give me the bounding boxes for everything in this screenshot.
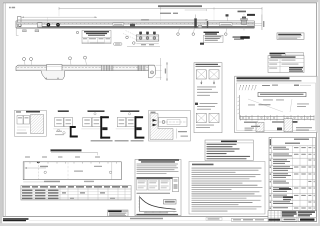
section detail group D <box>116 110 145 138</box>
balloon item 7 <box>225 28 228 35</box>
extension line right <box>261 10 263 30</box>
panel footer note <box>251 126 260 127</box>
rail clip block <box>198 25 202 28</box>
type list table <box>205 140 253 161</box>
rail view A: roller 2 <box>56 23 60 27</box>
sheet scale label M 1:2 <box>9 7 15 9</box>
rail view B: slider block <box>47 65 63 71</box>
rail view B: right dimension ticks <box>156 58 162 80</box>
section detail group B <box>53 110 78 137</box>
print strip <box>232 218 269 221</box>
rail view A: end dim ticks <box>247 15 264 31</box>
section detail box A <box>15 110 47 136</box>
rail view A: part number plate mid <box>113 23 124 26</box>
rail view B: hatched segment 1 <box>102 65 114 70</box>
instruction box <box>200 35 223 45</box>
rail view A: dark latch mid <box>130 24 135 27</box>
rail view A: front mounting bracket <box>18 17 22 27</box>
template dimension table <box>21 186 131 201</box>
rail view A: roller 1 <box>47 23 51 27</box>
left end extension line <box>16 28 18 36</box>
overall length dimension label <box>158 5 202 7</box>
balloon item 1b <box>30 58 33 65</box>
footer print info text <box>29 218 316 221</box>
vertical dimension line 19 <box>165 62 168 81</box>
balloon item 2 <box>126 36 129 39</box>
section label A-A <box>240 36 250 38</box>
rail view A: mounting bolt mid <box>194 15 197 28</box>
rail view A: outer member body <box>16 21 254 28</box>
section detail box E wall mount <box>149 110 191 141</box>
revision stamp box <box>108 210 128 216</box>
fixing bracket detail plan view <box>123 31 160 47</box>
balloon item 1c <box>69 57 72 65</box>
rail small dim text <box>141 19 149 20</box>
balloon item 1d <box>84 56 87 65</box>
anchor block 2 <box>35 30 39 32</box>
capsule note label <box>114 43 123 46</box>
rail view A: end line <box>253 21 255 28</box>
balloon item 4 <box>76 31 78 33</box>
load capacity diagram panel <box>135 159 181 216</box>
rail view B: hatched segment 2 <box>138 65 145 70</box>
bolt count label 4x <box>238 11 247 13</box>
warning label text <box>204 32 220 35</box>
fitting template application panel <box>235 76 317 133</box>
rail view A: closed length dimension line <box>17 19 208 20</box>
title block <box>268 211 317 222</box>
dimension value text 135 180 <box>160 13 178 14</box>
rail view B: body <box>16 65 154 70</box>
packaging contents panel <box>194 63 222 133</box>
balloon item 3 <box>133 42 136 45</box>
rail view A: bolt section detail right <box>241 14 248 31</box>
rail view A: front fitting block <box>38 23 43 27</box>
doc id label <box>206 218 222 221</box>
balloon item 5 <box>177 28 180 35</box>
anchor block 1 <box>23 30 27 32</box>
rail view A: joint line <box>207 21 208 28</box>
bolt hole label ø6.5 <box>247 14 255 16</box>
drilling template figure <box>23 149 121 182</box>
type label strip <box>270 53 304 56</box>
overall length dimension line <box>59 7 262 21</box>
important information notes box <box>189 162 265 215</box>
balloon item 1a <box>23 58 26 65</box>
mounting dimension table <box>82 31 111 44</box>
variant mini table <box>268 56 304 73</box>
bolt callout mid <box>226 14 229 21</box>
rail view A: travel dimension line <box>22 17 98 23</box>
section detail group C <box>81 110 110 138</box>
extension line left <box>58 10 60 16</box>
footer file path text <box>3 218 29 221</box>
rail view B: rear end bracket <box>149 65 156 78</box>
note text right <box>233 36 247 39</box>
sub dimension line <box>185 9 207 11</box>
rail view A: part number plate right <box>220 23 233 26</box>
balloon item 6 <box>192 28 195 35</box>
rail view B: lower bracket strap <box>41 71 65 80</box>
rail view A: inner member dark band <box>42 26 254 27</box>
reference note box <box>277 33 304 39</box>
parts list table <box>269 137 316 210</box>
section caption text <box>91 140 144 141</box>
